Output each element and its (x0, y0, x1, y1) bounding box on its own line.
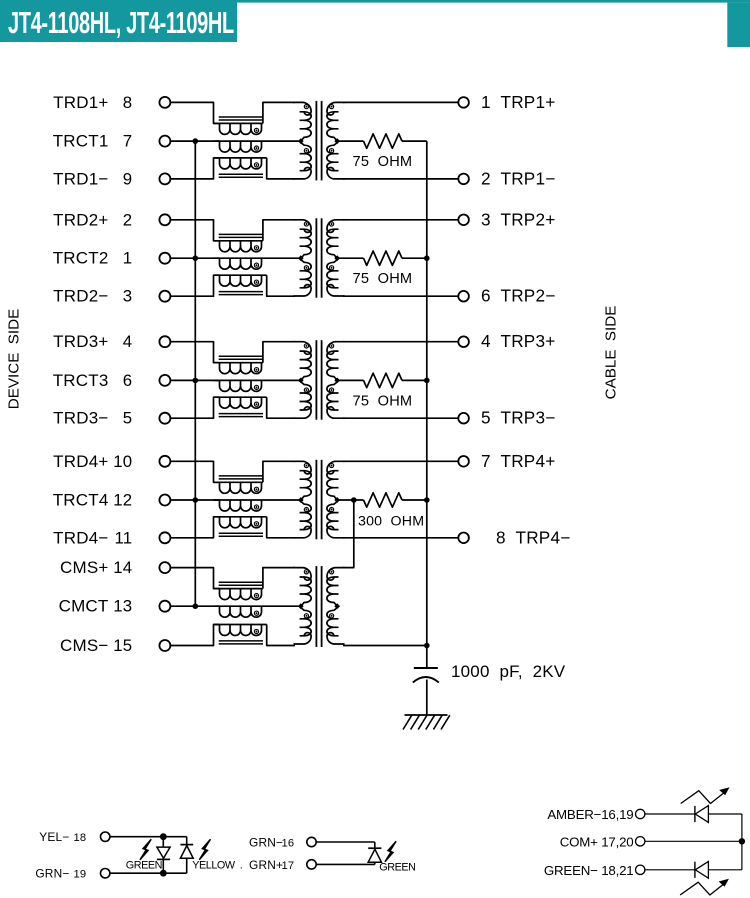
svg-text:TRD4+: TRD4+ (53, 452, 108, 471)
svg-text:75 OHM: 75 OHM (353, 154, 413, 170)
svg-text:7: 7 (123, 132, 133, 151)
svg-text:10: 10 (113, 452, 132, 471)
terminal TRD4- (159, 532, 170, 543)
svg-text:3: 3 (481, 209, 491, 229)
wire choke to transformer (top) (263, 220, 295, 241)
pin label CMS+ 14 (60, 558, 132, 577)
pin label GRN- 16 (249, 836, 294, 850)
wire center tap to resistor R1 (337, 140, 363, 142)
svg-text:6: 6 (481, 286, 491, 306)
terminal TRCT2 (159, 253, 170, 264)
transformer T4 secondary winding (327, 461, 345, 537)
transformer T2 primary winding (294, 220, 312, 296)
transformer T1 primary center tap (298, 138, 304, 144)
svg-text:3: 3 (123, 287, 133, 306)
terminal TRD3+ (159, 336, 170, 347)
choke T4 winding b (center) (214, 500, 301, 511)
ground symbol (403, 715, 450, 730)
svg-text:YELLOW .: YELLOW . (192, 860, 242, 872)
junction dot at bus (424, 643, 430, 649)
wire CMS secondary to bus (343, 645, 427, 647)
terminal CMS- (159, 640, 170, 651)
svg-text:11: 11 (114, 528, 132, 547)
wire to pin 7 (343, 460, 458, 462)
wire TRCT4 (170, 499, 219, 501)
choke T5 core (top) (219, 582, 263, 585)
wire to pin 3 (343, 219, 458, 221)
svg-text:75 OHM: 75 OHM (353, 393, 413, 409)
choke T5 winding b (center) (214, 606, 301, 617)
transformer T3 secondary winding (327, 342, 345, 419)
svg-text:GRN−: GRN− (249, 836, 283, 850)
pin label 7 TRP4+ (481, 451, 555, 471)
wire choke to transformer (bottom) (267, 625, 295, 646)
svg-text:TRP3−: TRP3− (501, 408, 556, 428)
wire R4 junction down to CMS transformer (343, 500, 354, 568)
pin label TRCT2 1 (53, 249, 133, 268)
svg-text:CABLE SIDE: CABLE SIDE (603, 306, 620, 400)
transformer T1 primary winding (294, 102, 312, 179)
pin label TRD1+ 8 (53, 93, 132, 112)
choke T5 winding a (214, 589, 263, 600)
svg-text:GREEN: GREEN (379, 862, 415, 874)
transformer T2 primary center tap (298, 255, 304, 261)
svg-text:DEVICE SIDE: DEVICE SIDE (6, 309, 23, 409)
transformer T3 core (316, 340, 321, 420)
terminal TRD2- (159, 291, 170, 302)
bolt for green LED (140, 839, 151, 860)
svg-text:TRCT1: TRCT1 (53, 132, 109, 151)
corner block (727, 3, 750, 48)
wire choke to transformer (top) (263, 461, 295, 482)
pin label TRD4- 11 (53, 528, 132, 547)
svg-text:TRD2−: TRD2− (53, 287, 108, 306)
wire top rail (110, 836, 187, 838)
bolt for green LED (middle) (385, 841, 396, 862)
svg-text:14: 14 (113, 558, 132, 577)
wire choke to transformer (bottom) (267, 397, 295, 418)
junction dot on bus (193, 255, 199, 261)
wire resistor R2 to bus (402, 257, 427, 259)
terminal 5 TRP3- (458, 413, 469, 424)
resistor R1 75 OHM (364, 134, 403, 148)
terminal GREEN- (636, 865, 645, 874)
wire center tap to resistor R2 (337, 257, 363, 259)
svg-text:13: 13 (113, 597, 132, 616)
terminal TRD4+ (159, 456, 170, 467)
transformer T2 core (316, 218, 321, 297)
choke T1 winding c (214, 158, 267, 169)
svg-text:TRP3+: TRP3+ (501, 331, 556, 351)
pin label COM+ 17,20 (560, 834, 634, 849)
transformer T3 secondary center tap (334, 378, 340, 384)
svg-text:TRD1−: TRD1− (53, 169, 108, 188)
wire choke to transformer (top) (263, 568, 295, 589)
svg-text:YEL−: YEL− (39, 830, 69, 844)
junction dot COM (739, 838, 745, 844)
pin label GRN- 19 (35, 867, 86, 881)
pin label TRD4+ 10 (53, 452, 132, 471)
pin label TRD2- 3 (53, 287, 132, 306)
transformer T3 primary winding (294, 342, 312, 419)
pin label YEL- 18 (39, 830, 86, 844)
transformer T4 core (316, 460, 321, 540)
wire choke to transformer (top) (263, 102, 295, 123)
junction dot on bus (193, 378, 199, 384)
svg-text:JT4-1108HL, JT4-1109HL: JT4-1108HL, JT4-1109HL (8, 7, 234, 40)
wire CMS+ to choke (170, 568, 219, 589)
wire amber to bus (741, 814, 743, 841)
transformer T3 primary center tap (298, 378, 304, 384)
wire bus to capacitor (426, 646, 428, 669)
transformer T5 primary center tap (298, 603, 304, 609)
terminal COM+ (636, 837, 645, 846)
svg-text:GREEN− 18,21: GREEN− 18,21 (544, 863, 634, 878)
svg-text:TRP2+: TRP2+ (501, 209, 556, 229)
title banner (0, 0, 750, 42)
wire resistor R3 to bus (402, 379, 427, 381)
pin label GREEN- 18,21 (544, 863, 634, 878)
choke T4 winding a (214, 482, 263, 493)
junction dot on termination bus (424, 255, 430, 261)
wire to pin 1 (343, 101, 458, 103)
transformer T2 secondary center tap (334, 255, 340, 261)
svg-text:TRP2−: TRP2− (501, 286, 556, 306)
pin label 1 TRP1+ (481, 92, 555, 112)
LED D2 YELLOW (180, 837, 193, 874)
choke T5 winding c (214, 625, 267, 636)
svg-text:2: 2 (123, 210, 133, 229)
svg-text:4: 4 (123, 332, 133, 351)
wire to pin 6 (343, 295, 458, 297)
terminal 3 TRP2+ (458, 215, 469, 226)
svg-text:18: 18 (74, 832, 87, 844)
choke T1 core (bottom) (219, 174, 263, 177)
svg-text:GRN−: GRN− (35, 867, 69, 881)
junction dot on bus (193, 138, 199, 144)
transformer T1 secondary center tap (334, 138, 340, 144)
choke T3 winding c (214, 397, 267, 408)
pin label TRCT3 6 (53, 371, 133, 390)
wire TRD3- to choke (170, 397, 219, 418)
svg-text:TRP4−: TRP4− (516, 527, 571, 547)
svg-text:TRD3+: TRD3+ (53, 332, 108, 351)
choke T4 winding c (214, 517, 267, 528)
wire TRD4- to choke (170, 517, 219, 538)
terminal TRD1+ (159, 97, 170, 108)
wire TRD2+ to choke (170, 220, 219, 241)
LED D4 AMBER (645, 806, 742, 823)
svg-text:CMS−: CMS− (60, 636, 109, 655)
transformer T4 primary winding (294, 461, 312, 537)
pin label 5 TRP3- (481, 408, 555, 428)
svg-text:17: 17 (282, 860, 295, 872)
transformer T4 primary center tap (298, 497, 304, 503)
junction dots green led (160, 833, 167, 876)
choke T2 core (bottom) (219, 292, 263, 295)
wire resistor R4 to bus (402, 499, 427, 501)
pin label TRD2+ 2 (53, 210, 132, 229)
svg-text:1: 1 (123, 249, 133, 268)
junction dot on termination bus (424, 378, 430, 384)
junction dot on R4 wire (351, 497, 357, 503)
terminal TRD2+ (159, 214, 170, 225)
LED D3 GREEN (316, 842, 381, 864)
svg-text:15: 15 (113, 636, 132, 655)
svg-text:5: 5 (123, 409, 133, 428)
terminal YEL- 18 (101, 832, 110, 841)
svg-text:TRCT3: TRCT3 (53, 371, 109, 390)
choke T3 winding a (214, 363, 263, 374)
terminal GRN+ 17 (307, 860, 316, 869)
wire resistor R1 to bus (402, 140, 427, 142)
transformer T1 core (316, 101, 321, 180)
wire CMS- to choke (170, 625, 219, 646)
wire: center-tap bus (left) (194, 141, 196, 606)
terminal TRCT1 (159, 136, 170, 147)
svg-text:16: 16 (282, 838, 295, 850)
wire to pin 4 (343, 341, 458, 343)
wire: termination bus (right) (426, 141, 428, 645)
wire capacitor to ground (426, 680, 428, 716)
svg-text:TRP1+: TRP1+ (501, 92, 556, 112)
transformer T5 primary winding (294, 568, 312, 644)
svg-text:GRN+: GRN+ (249, 858, 283, 872)
transformer T5 core (316, 566, 321, 647)
pin label TRCT4 12 (53, 491, 133, 510)
svg-text:TRP4+: TRP4+ (501, 451, 556, 471)
terminal TRCT4 (159, 495, 170, 506)
choke T1 winding b (center) (214, 141, 301, 152)
choke T2 winding b (center) (214, 258, 301, 269)
wire TRCT2 (170, 257, 219, 259)
svg-text:8: 8 (496, 527, 506, 547)
pin label TRD1- 9 (53, 169, 132, 188)
wire COM+ (645, 840, 742, 842)
pin label AMBER-16,19 (547, 807, 633, 822)
terminal GRN- 19 (101, 869, 110, 878)
wire TRCT1 (170, 140, 219, 142)
terminal 2 TRP1- (458, 174, 469, 185)
terminal CMS+ (159, 562, 170, 573)
svg-text:5: 5 (481, 408, 491, 428)
wire to pin 5 (343, 417, 458, 419)
wire TRD2- to choke (170, 275, 219, 296)
wire TRD3+ to choke (170, 342, 219, 363)
wire center tap to resistor R4 (337, 499, 363, 501)
terminal TRCT3 (159, 375, 170, 386)
wire CMCT (170, 605, 219, 607)
svg-text:TRCT4: TRCT4 (53, 491, 109, 510)
choke T1 core (top) (219, 117, 263, 120)
svg-text:7: 7 (481, 451, 491, 471)
wire TRD4+ to choke (170, 461, 219, 482)
choke T4 core (top) (219, 476, 263, 479)
resistor R2 75 OHM (364, 251, 403, 265)
wire choke to transformer (bottom) (267, 275, 295, 296)
transformer T5 secondary winding (327, 568, 345, 644)
capacitor C1 1000pF (413, 668, 439, 683)
pin label TRD3- 5 (53, 409, 132, 428)
terminal 1 TRP1+ (458, 97, 469, 108)
terminal 7 TRP4+ (458, 456, 469, 467)
svg-text:1000 pF, 2KV: 1000 pF, 2KV (451, 662, 566, 681)
resistor R3 75 OHM (364, 373, 403, 387)
wire center tap to resistor R3 (337, 379, 363, 381)
transformer T2 secondary winding (327, 220, 345, 296)
pin label GRN+ 17 (249, 858, 294, 872)
svg-text:2: 2 (481, 168, 491, 188)
svg-text:12: 12 (113, 491, 132, 510)
wire green to bus (741, 841, 743, 870)
svg-text:TRD4−: TRD4− (53, 528, 108, 547)
pin label TRD3+ 4 (53, 332, 132, 351)
emission arrows amber (681, 791, 727, 804)
svg-text:TRP1−: TRP1− (501, 168, 556, 188)
choke T4 core (bottom) (219, 533, 263, 536)
junction dot on bus (193, 497, 199, 503)
wire to pin 8 (343, 537, 458, 539)
svg-text:6: 6 (123, 371, 133, 390)
choke T2 winding c (214, 275, 267, 286)
resistor R4 300 OHM (364, 493, 403, 507)
choke T3 core (top) (219, 356, 263, 359)
pin label 8 TRP4- (496, 527, 570, 547)
junction dot on termination bus (424, 497, 430, 503)
junction dot on bus (193, 603, 199, 609)
svg-text:TRD3−: TRD3− (53, 409, 108, 428)
terminal 6 TRP2- (458, 291, 469, 302)
pin label CMS- 15 (60, 636, 132, 655)
terminal AMBER (636, 809, 645, 818)
wire TRD1+ to choke (170, 102, 219, 123)
pin label 4 TRP3+ (481, 331, 555, 351)
emission arrows green (680, 882, 726, 895)
pin label 6 TRP2- (481, 286, 555, 306)
svg-text:GREEN: GREEN (126, 860, 162, 872)
svg-text:AMBER−16,19: AMBER−16,19 (547, 807, 633, 822)
wire to pin 2 (343, 178, 458, 180)
terminal CMCT (159, 601, 170, 612)
terminal GRN- 16 (307, 837, 316, 846)
choke T2 core (top) (219, 234, 263, 237)
pin label 3 TRP2+ (481, 209, 555, 229)
choke T3 core (bottom) (219, 414, 263, 417)
svg-text:COM+ 17,20: COM+ 17,20 (560, 834, 634, 849)
choke T2 winding a (214, 241, 263, 252)
svg-text:19: 19 (74, 869, 87, 881)
svg-text:9: 9 (123, 169, 133, 188)
LED D5 GREEN (645, 861, 742, 878)
svg-text:TRD2+: TRD2+ (53, 210, 108, 229)
pin label TRCT1 7 (53, 132, 133, 151)
terminal TRD1- (159, 173, 170, 184)
terminal 4 TRP3+ (458, 336, 469, 347)
choke T3 winding b (center) (214, 380, 301, 391)
svg-text:TRCT2: TRCT2 (53, 249, 109, 268)
wire choke to transformer (bottom) (267, 158, 295, 179)
transformer T1 secondary winding (327, 102, 345, 179)
choke T5 core (bottom) (219, 641, 263, 644)
wire choke to transformer (top) (263, 342, 295, 363)
svg-text:8: 8 (123, 93, 133, 112)
bolt for yellow LED (199, 839, 210, 860)
svg-text:1: 1 (481, 92, 491, 112)
transformer T4 secondary center tap (334, 497, 340, 503)
wire TRCT3 (170, 379, 219, 381)
terminal TRD3- (159, 413, 170, 424)
svg-text:300 OHM: 300 OHM (358, 514, 424, 530)
svg-text:TRD1+: TRD1+ (53, 93, 108, 112)
choke T1 winding a (214, 123, 263, 134)
wire choke to transformer (bottom) (267, 517, 295, 538)
wire bottom rail (110, 872, 187, 874)
svg-text:75 OHM: 75 OHM (353, 271, 413, 287)
transformer T5 secondary center tap (334, 603, 340, 609)
LED D1 GREEN (157, 837, 170, 874)
pin label 2 TRP1- (481, 168, 555, 188)
pin label CMCT 13 (59, 597, 133, 616)
svg-text:4: 4 (481, 331, 491, 351)
wire TRD1- to choke (170, 158, 219, 179)
svg-text:CMS+: CMS+ (60, 558, 109, 577)
terminal 8 TRP4- (458, 533, 469, 544)
svg-text:CMCT: CMCT (59, 597, 109, 616)
